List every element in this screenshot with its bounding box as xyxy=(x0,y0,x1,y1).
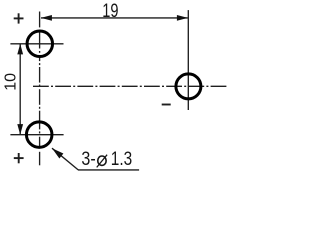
wire: vertical extension/center line through right hole xyxy=(187,10,189,110)
wire: horizontal center line through bottom-left hole xyxy=(10,134,63,136)
hole circle right xyxy=(176,74,201,99)
svg-text:10: 10 xyxy=(2,73,19,91)
leader line to bottom-left hole xyxy=(52,148,78,170)
wire: vertical center line through left holes (dash-dot segments) xyxy=(39,12,41,166)
hole circle top-left xyxy=(27,31,53,57)
svg-text:1.3: 1.3 xyxy=(111,149,132,170)
leader arrowhead xyxy=(52,148,63,158)
plus mark bottom-left xyxy=(14,153,24,163)
dimension line 10 xyxy=(19,44,21,135)
wire: horizontal center line through top-left hole xyxy=(10,43,63,45)
dimension line 19 xyxy=(41,17,188,19)
diameter symbol xyxy=(98,156,106,165)
plus mark top-left xyxy=(14,13,24,23)
leader underline xyxy=(78,169,139,171)
svg-text:19: 19 xyxy=(102,1,118,22)
wire: horizontal center line through right hole (dash-dot) xyxy=(33,85,230,87)
minus mark near right hole xyxy=(162,104,171,106)
hole circle bottom-left xyxy=(26,122,52,148)
svg-text:3-: 3- xyxy=(81,149,95,170)
